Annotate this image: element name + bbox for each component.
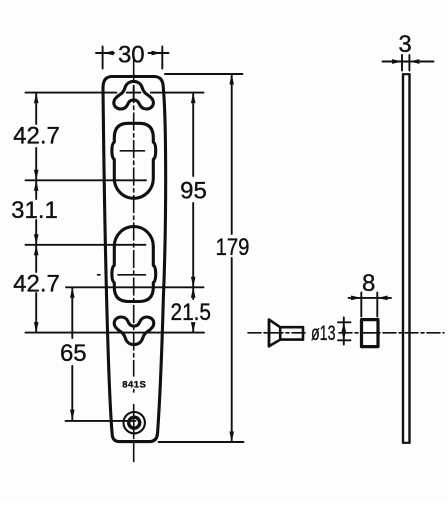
arrow down at L5: [34, 322, 39, 333]
extension line 179 bottom: [159, 441, 244, 443]
dimension line 8: [349, 297, 392, 299]
center mark lower oval: [98, 274, 146, 276]
svg-text:31.1: 31.1: [11, 197, 58, 224]
svg-text:65: 65: [60, 340, 87, 367]
dimension line 30 (top): [96, 52, 169, 54]
oval hole lower (cylinder slot, mirrored): [112, 226, 156, 301]
dimension line 3 (top right): [383, 61, 434, 63]
dimension line 179: [231, 74, 233, 442]
trefoil hole top (cloverleaf): [114, 81, 154, 109]
arrows meeting at L3: [34, 234, 39, 245]
centerline of bottom screw hole: [66, 420, 136, 422]
center cross mark in top trefoil: [127, 86, 141, 99]
extension ticks 8 down to sleeve: [361, 293, 377, 317]
arrows meeting at L2: [34, 170, 39, 181]
left chain dimension line (42.7 / 31.1 / 42.7): [35, 93, 37, 333]
svg-text:179: 179: [216, 234, 250, 261]
plate outline (front view): [103, 77, 166, 442]
screw hole bottom inner ring: [129, 417, 140, 428]
trefoil hole bottom (cloverleaf, mirrored): [114, 317, 154, 345]
extension line L4 (95/21.5 boundary): [66, 286, 204, 288]
oval hole upper (cylinder slot): [112, 123, 156, 198]
svg-text:3: 3: [398, 31, 411, 58]
arrow up at L1: [34, 93, 39, 104]
svg-text:42.7: 42.7: [13, 271, 60, 298]
svg-text:841S: 841S: [122, 379, 146, 390]
svg-text:95: 95: [180, 178, 207, 205]
extension line L2 (upper oval arc center): [26, 179, 147, 181]
dimension ø13: [343, 318, 345, 345]
svg-text:30: 30: [118, 42, 145, 69]
extension line L3 (lower oval arc center): [26, 244, 146, 246]
svg-text:21.5: 21.5: [171, 299, 212, 326]
extension line 179 top: [165, 73, 243, 75]
center mark upper oval: [120, 150, 144, 152]
dimension line 65: [71, 287, 73, 420]
vertical centerline of plate: [133, 58, 135, 376]
screw hole bottom outer circle: [124, 412, 145, 433]
side view bar (plate thickness): [403, 74, 410, 443]
svg-text:ø13: ø13: [311, 321, 336, 345]
sleeve / nut rectangle: [362, 320, 379, 347]
extension line L5 (trefoil bottom center): [26, 332, 205, 334]
dimension line 21.5: [192, 287, 194, 332]
dimension line 95: [192, 93, 194, 288]
extension line L1 (trefoil top center): [26, 92, 204, 94]
countersunk screw side view: [269, 320, 303, 347]
horizontal centerline through screw / sleeve / bar: [248, 332, 306, 334]
svg-text:42.7: 42.7: [13, 123, 60, 150]
svg-text:8: 8: [362, 270, 375, 297]
